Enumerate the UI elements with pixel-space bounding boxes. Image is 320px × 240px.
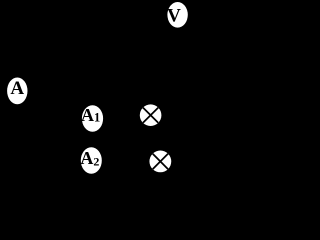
ammeter A2	[80, 147, 101, 174]
wire A2 to lamp L2	[102, 160, 149, 162]
wire right rail	[249, 28, 251, 161]
wire lamp L1 to right rail	[161, 115, 250, 117]
lamp L2	[149, 151, 171, 173]
ammeter A	[7, 77, 27, 104]
wire voltmeter tap left	[145, 15, 167, 28]
ammeter A1	[81, 105, 103, 132]
wire branch 1 horizontal to A1	[17, 117, 82, 119]
wire left rail down to ammeter A	[16, 28, 18, 78]
battery B1	[85, 20, 95, 36]
svg-text:A: A	[10, 78, 24, 99]
wire A1 to lamp L1	[103, 115, 140, 117]
node branch split	[15, 138, 19, 142]
svg-text:V: V	[167, 5, 181, 26]
wire branch 2 horizontal to A2	[17, 160, 81, 162]
lamp L1	[140, 104, 162, 126]
wire top-left from battery to left rail	[17, 27, 85, 29]
wire lamp L2 to right rail	[171, 160, 250, 162]
wire voltmeter tap right	[188, 15, 215, 28]
wire top-right from battery to right rail	[95, 27, 250, 29]
wire from ammeter A down to branch node	[16, 104, 18, 140]
voltmeter V	[167, 2, 188, 28]
